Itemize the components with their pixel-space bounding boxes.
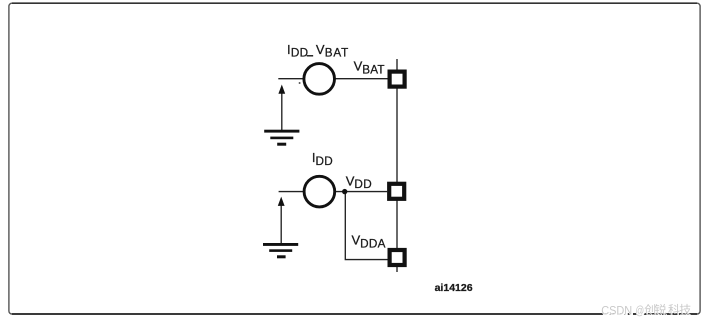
svg-text:@: @	[635, 305, 644, 317]
svg-text:CSDN: CSDN	[601, 305, 632, 317]
svg-text:ai14126: ai14126	[435, 282, 473, 294]
